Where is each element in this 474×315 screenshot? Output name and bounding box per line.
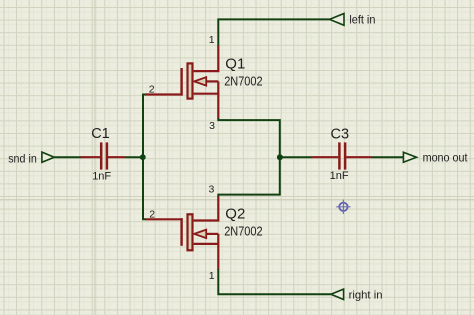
svg-text:mono out: mono out [423, 152, 469, 165]
svg-text:C3: C3 [331, 126, 350, 142]
junction node: mix node dot [277, 154, 283, 160]
C3 right lead [346, 156, 371, 158]
wire: Q2 drain to right in [218, 269, 331, 294]
svg-text:2N7002: 2N7002 [224, 75, 262, 89]
C1 left lead [81, 156, 101, 158]
Q2 gate lead (pin 2) [145, 218, 183, 220]
wire: mix node to Q2 source [218, 157, 279, 197]
Q1 body arrow [194, 77, 206, 85]
origin marker (blue crosshair) [336, 200, 350, 214]
svg-text:Q2: Q2 [225, 205, 245, 222]
input terminal LEFT IN [330, 13, 376, 27]
output terminal MONO OUT [403, 152, 468, 165]
capacitor C3 1nF [311, 126, 371, 182]
Q2 body arrow [194, 230, 206, 238]
input terminal RIGHT IN [331, 289, 383, 301]
wire: gate bus (Q1 gate to Q2 gate) [143, 95, 146, 220]
capacitor C1 1nF [81, 126, 126, 182]
wire: left in net (top horizontal + drop to Q1 drain) [218, 19, 329, 46]
svg-text:right in: right in [349, 289, 383, 301]
svg-text:Q1: Q1 [225, 55, 245, 72]
wire: mix node to C3 [280, 156, 312, 158]
C3 right plate [344, 142, 347, 169]
svg-text:left in: left in [349, 13, 375, 27]
svg-text:2: 2 [149, 209, 155, 221]
wire: snd in to C1 [54, 156, 81, 158]
C1 left plate [100, 142, 103, 169]
Q2 drain lead (pin 1) [194, 234, 219, 270]
Q1 gate lead (pin 2) [145, 93, 183, 95]
Q2 gate bar [180, 218, 182, 246]
C3 left plate [338, 142, 341, 169]
svg-text:1nF: 1nF [330, 170, 349, 182]
Q1 channel plate [188, 63, 193, 98]
svg-text:1nF: 1nF [92, 170, 111, 182]
svg-text:snd in: snd in [8, 151, 37, 165]
wire: C3 to mono out [371, 156, 403, 158]
C1 right lead [108, 156, 126, 158]
svg-text:C1: C1 [91, 126, 110, 142]
Q1 gate bar [180, 68, 182, 96]
svg-text:2N7002: 2N7002 [224, 225, 262, 239]
Q1 pin 1 (drain lead) [194, 46, 219, 72]
C3 left lead [311, 156, 338, 158]
Q2 channel plate [188, 214, 193, 250]
junction node: gate bus dot [140, 154, 146, 160]
svg-text:3: 3 [209, 120, 215, 132]
wire: Q1 source to mix node [218, 118, 279, 157]
Q1 source lead (pin 3) [194, 81, 219, 118]
transistor Q1 2N7002 [145, 34, 263, 132]
Q2 pin 3 (source lead) [194, 197, 219, 221]
svg-text:1: 1 [209, 270, 215, 282]
svg-text:2: 2 [149, 83, 155, 95]
transistor Q2 2N7002 [145, 184, 263, 282]
input terminal SND IN [8, 151, 54, 165]
C1 right plate [106, 142, 109, 169]
wire: C1 to gate bus junction [126, 156, 143, 158]
svg-text:3: 3 [208, 184, 214, 196]
svg-text:1: 1 [209, 34, 215, 46]
